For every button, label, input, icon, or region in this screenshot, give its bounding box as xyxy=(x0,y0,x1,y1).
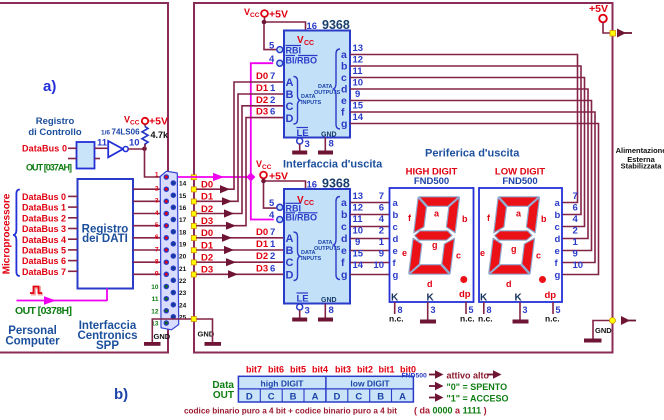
svg-text:f: f xyxy=(341,257,345,269)
svg-text:15: 15 xyxy=(179,193,187,200)
left box (Personal Computer frame) xyxy=(0,3,168,353)
svg-text:23: 23 xyxy=(179,290,187,297)
svg-text:n.c.: n.c. xyxy=(460,314,475,324)
svg-text:FND500: FND500 xyxy=(502,176,537,187)
svg-text:10: 10 xyxy=(129,138,140,149)
wire D2 connector to U1 input C xyxy=(196,106,284,218)
svg-text:OUT: OUT xyxy=(213,390,234,401)
wire junction down to connector pin 1 xyxy=(145,149,165,177)
svg-text:A: A xyxy=(312,392,319,403)
connector pins left column 1-13 xyxy=(164,175,175,325)
+5V external supply terminal top right xyxy=(589,3,632,38)
svg-text:10: 10 xyxy=(353,78,364,89)
svg-text:1: 1 xyxy=(270,83,276,94)
svg-text:c: c xyxy=(393,222,398,233)
magenta control wire from pin1 to BI/RBO pins xyxy=(178,63,274,219)
svg-text:4.7k: 4.7k xyxy=(151,130,170,140)
svg-text:+5V: +5V xyxy=(269,9,288,21)
svg-text:e: e xyxy=(555,246,560,257)
svg-text:1/6: 1/6 xyxy=(101,130,110,137)
Vcc label U2 xyxy=(256,159,288,183)
svg-text:c: c xyxy=(555,222,560,233)
svg-text:bit1: bit1 xyxy=(378,365,394,375)
wire D3 connector to U2 input D xyxy=(196,265,284,279)
svg-text:A: A xyxy=(286,233,294,245)
svg-text:+5V: +5V xyxy=(589,3,608,15)
svg-text:a: a xyxy=(341,49,347,61)
U2 output wires to HIGH digit xyxy=(350,203,390,275)
svg-text:V: V xyxy=(297,35,304,46)
Vcc +5V terminal (control) xyxy=(124,115,168,128)
svg-text:DataBus 3: DataBus 3 xyxy=(22,224,66,234)
wire D2 connector to U2 input C xyxy=(196,253,284,267)
U1 output pin numbers xyxy=(353,43,364,123)
HIGH pin stubs xyxy=(394,302,396,314)
DB25 connector body xyxy=(160,171,179,330)
svg-text:11: 11 xyxy=(353,66,364,77)
svg-text:C: C xyxy=(268,392,275,403)
svg-text:D1: D1 xyxy=(201,192,214,203)
svg-text:D1: D1 xyxy=(256,83,269,94)
LOW pin stubs xyxy=(483,302,485,314)
svg-text:B: B xyxy=(377,392,384,403)
svg-text:9: 9 xyxy=(573,249,578,260)
svg-text:3: 3 xyxy=(305,306,310,317)
svg-text:Microprocessore: Microprocessore xyxy=(2,193,13,274)
svg-text:11: 11 xyxy=(97,138,108,149)
decimal point LOW xyxy=(539,276,546,283)
U2 LE pin 3 bubble and gnd xyxy=(297,304,303,310)
clock pulse symbol xyxy=(30,287,43,295)
register outputs to connector pins 2-9 xyxy=(133,189,165,274)
svg-text:4: 4 xyxy=(269,54,275,65)
svg-text:INPUTS: INPUTS xyxy=(301,100,322,106)
svg-text:CC: CC xyxy=(130,120,140,127)
svg-text:d: d xyxy=(393,234,399,245)
svg-text:15: 15 xyxy=(353,101,364,112)
svg-text:g: g xyxy=(341,269,347,281)
svg-text:D1: D1 xyxy=(201,240,214,251)
svg-text:2: 2 xyxy=(270,95,275,106)
svg-text:high DIGIT: high DIGIT xyxy=(261,379,305,389)
svg-text:FND500: FND500 xyxy=(414,176,449,187)
Registro dei DATI box xyxy=(78,179,134,289)
svg-text:g: g xyxy=(432,240,438,250)
svg-text:C: C xyxy=(355,392,362,403)
svg-text:GND: GND xyxy=(595,326,612,335)
svg-text:a: a xyxy=(555,198,561,209)
svg-text:5: 5 xyxy=(269,198,275,209)
svg-text:8: 8 xyxy=(155,259,159,266)
svg-text:bit7: bit7 xyxy=(246,365,262,375)
svg-text:GND: GND xyxy=(321,297,337,304)
svg-text:10: 10 xyxy=(373,260,384,271)
chip U2 9368 xyxy=(269,189,350,322)
svg-text:GND: GND xyxy=(154,332,171,341)
svg-text:16: 16 xyxy=(179,205,187,212)
yellow junction squares on border xyxy=(191,175,196,322)
svg-text:codice binario puro a 4 bit +: codice binario puro a 4 bit + codice bin… xyxy=(184,407,397,416)
wire Vcc to U2 pin16 and pin5 xyxy=(261,177,350,209)
svg-text:"1" = ACCESO: "1" = ACCESO xyxy=(447,394,509,404)
svg-text:Periferica d'uscita: Periferica d'uscita xyxy=(425,148,520,160)
svg-text:n.c.: n.c. xyxy=(545,314,560,324)
brace microprocessor bus xyxy=(13,190,20,277)
svg-text:c: c xyxy=(536,251,541,261)
output letters a-g xyxy=(341,49,347,130)
svg-text:bit2: bit2 xyxy=(357,365,373,375)
svg-text:14: 14 xyxy=(353,260,364,271)
svg-text:D3: D3 xyxy=(201,265,213,276)
svg-text:FND500: FND500 xyxy=(402,373,428,380)
inverter 1/6 74LS06 xyxy=(97,128,140,158)
svg-text:3: 3 xyxy=(155,198,159,205)
svg-text:74LS06: 74LS06 xyxy=(112,128,141,137)
svg-text:Stabilizzata: Stabilizzata xyxy=(621,162,663,171)
svg-text:DataBus 4: DataBus 4 xyxy=(22,235,66,245)
svg-text:15: 15 xyxy=(353,249,364,260)
ground symbol right of connector xyxy=(198,330,222,346)
svg-text:D0: D0 xyxy=(201,228,213,239)
svg-text:e: e xyxy=(341,245,347,257)
LE pin 3 bubble and gnd xyxy=(297,138,303,144)
svg-text:d: d xyxy=(427,279,433,289)
U2 input letters xyxy=(286,233,294,281)
svg-text:B: B xyxy=(290,392,297,403)
svg-text:e: e xyxy=(341,95,347,107)
wire inverter output to junction xyxy=(128,148,144,150)
svg-text:CC: CC xyxy=(250,12,260,19)
svg-text:D2: D2 xyxy=(256,95,268,106)
svg-text:b: b xyxy=(393,210,399,221)
svg-text:C: C xyxy=(286,101,294,113)
svg-text:b: b xyxy=(541,214,547,224)
svg-text:24: 24 xyxy=(179,302,187,309)
svg-text:dp: dp xyxy=(545,290,557,301)
svg-text:bit4: bit4 xyxy=(312,365,328,375)
svg-text:7: 7 xyxy=(379,191,384,202)
connector ground wire pin25 xyxy=(152,319,212,342)
svg-text:f: f xyxy=(341,107,345,119)
connector pin numbers 10-13 green xyxy=(151,284,159,328)
svg-text:11: 11 xyxy=(152,296,159,303)
svg-text:K: K xyxy=(480,293,488,304)
svg-text:D0: D0 xyxy=(256,227,268,238)
svg-text:D2: D2 xyxy=(256,251,268,262)
svg-text:d: d xyxy=(341,233,347,245)
svg-text:LE: LE xyxy=(297,128,309,139)
svg-text:1: 1 xyxy=(155,172,159,179)
wires DataBus labels to register xyxy=(68,196,78,271)
bit labels xyxy=(246,365,416,375)
GND external terminal bottom right xyxy=(584,316,636,343)
svg-text:g: g xyxy=(341,118,347,130)
svg-text:b: b xyxy=(341,61,347,73)
svg-text:7: 7 xyxy=(270,71,275,82)
svg-text:20: 20 xyxy=(179,254,187,261)
svg-text:b): b) xyxy=(114,386,128,403)
svg-text:2: 2 xyxy=(270,251,275,262)
svg-text:7: 7 xyxy=(270,227,275,238)
svg-text:e: e xyxy=(402,248,407,258)
svg-text:1: 1 xyxy=(379,237,385,248)
DataBus 0-7 labels xyxy=(22,192,66,277)
svg-text:"0" = SPENTO: "0" = SPENTO xyxy=(447,382,508,392)
wire D3 connector to U1 input D xyxy=(196,118,284,230)
display U3 FND500 HIGH DIGIT xyxy=(389,167,475,324)
svg-text:c: c xyxy=(456,251,461,261)
svg-text:DataBus 2: DataBus 2 xyxy=(22,213,66,223)
svg-text:3: 3 xyxy=(523,305,528,315)
svg-text:17: 17 xyxy=(179,217,187,224)
resistor R 4.7k xyxy=(142,124,169,149)
svg-text:3: 3 xyxy=(431,305,436,315)
svg-text:21: 21 xyxy=(179,266,187,273)
svg-text:SPP: SPP xyxy=(96,340,119,352)
svg-text:19: 19 xyxy=(179,242,187,249)
svg-text:D: D xyxy=(286,269,294,281)
wire Vcc to U1 pin16 and pin5 xyxy=(262,17,350,50)
svg-text:4: 4 xyxy=(379,214,385,225)
svg-text:25: 25 xyxy=(179,315,187,322)
svg-text:2: 2 xyxy=(379,226,384,237)
svg-text:b: b xyxy=(555,210,561,221)
svg-text:1: 1 xyxy=(270,239,276,250)
svg-text:OUT [037AH]: OUT [037AH] xyxy=(26,163,72,173)
svg-text:attivo alto: attivo alto xyxy=(447,371,490,381)
svg-text:b: b xyxy=(462,214,468,224)
svg-text:d: d xyxy=(555,234,561,245)
svg-text:14: 14 xyxy=(353,112,364,123)
svg-text:( da 0000 a 1111 ): ( da 0000 a 1111 ) xyxy=(414,406,487,416)
U2 input labels xyxy=(256,227,276,274)
svg-text:bit6: bit6 xyxy=(268,365,284,375)
svg-text:9: 9 xyxy=(355,89,360,100)
svg-text:d: d xyxy=(506,279,512,289)
svg-text:BI/RBO: BI/RBO xyxy=(286,55,318,65)
svg-text:7: 7 xyxy=(573,191,578,202)
svg-text:13: 13 xyxy=(353,191,364,202)
7seg digit HIGH xyxy=(409,197,460,274)
svg-text:5: 5 xyxy=(155,222,159,229)
svg-text:8: 8 xyxy=(329,139,334,150)
Alimentazione Esterna Stabilizzata label xyxy=(616,146,664,171)
svg-text:Registro: Registro xyxy=(36,116,75,127)
svg-text:3: 3 xyxy=(305,139,310,150)
svg-text:e: e xyxy=(480,248,485,258)
svg-text:D0: D0 xyxy=(201,180,213,191)
svg-text:bit5: bit5 xyxy=(290,365,306,375)
svg-text:B: B xyxy=(286,89,294,101)
right box (interface frame) xyxy=(194,3,613,353)
svg-text:5: 5 xyxy=(269,41,275,52)
input letters xyxy=(286,77,294,125)
svg-text:DataBus 7: DataBus 7 xyxy=(22,267,66,277)
svg-text:12: 12 xyxy=(353,55,364,66)
svg-text:K: K xyxy=(515,293,523,304)
wire D1 connector to U1 input B xyxy=(196,94,284,205)
wire latch stub xyxy=(95,158,101,160)
svg-text:D2: D2 xyxy=(201,253,213,264)
svg-text:13: 13 xyxy=(353,43,364,54)
svg-text:D0: D0 xyxy=(256,71,268,82)
svg-text:dei DATI: dei DATI xyxy=(82,233,128,245)
svg-text:4: 4 xyxy=(155,210,159,217)
svg-text:Alimentazione: Alimentazione xyxy=(616,146,664,155)
svg-text:18: 18 xyxy=(179,229,187,236)
svg-text:di Controllo: di Controllo xyxy=(28,127,81,138)
svg-text:a: a xyxy=(393,198,399,209)
svg-text:2: 2 xyxy=(155,186,159,193)
svg-text:D3: D3 xyxy=(256,107,268,118)
svg-text:4: 4 xyxy=(573,214,579,225)
svg-text:6: 6 xyxy=(155,234,159,241)
connector pin numbers 1-9 red xyxy=(155,172,159,278)
svg-text:D: D xyxy=(286,113,294,125)
7seg digit LOW xyxy=(489,197,540,274)
svg-text:K: K xyxy=(427,293,435,304)
svg-text:D3: D3 xyxy=(256,263,268,274)
svg-text:LE: LE xyxy=(297,294,309,305)
svg-text:OUT [0378H]: OUT [0378H] xyxy=(15,305,72,317)
svg-text:11: 11 xyxy=(353,214,364,225)
connector pin numbers 14-25 black xyxy=(179,181,187,322)
junction dot xyxy=(142,147,147,152)
svg-text:n.c.: n.c. xyxy=(478,314,493,324)
svg-text:DataBus 5: DataBus 5 xyxy=(22,246,66,256)
svg-text:9: 9 xyxy=(379,249,384,260)
svg-text:CC: CC xyxy=(304,40,314,47)
svg-text:c: c xyxy=(341,72,347,84)
svg-text:Computer: Computer xyxy=(5,336,60,348)
svg-text:b: b xyxy=(341,209,347,221)
svg-text:6: 6 xyxy=(573,203,578,214)
svg-text:14: 14 xyxy=(179,181,187,188)
svg-text:c: c xyxy=(341,221,347,233)
svg-text:CC: CC xyxy=(304,200,314,207)
connector pins right column 14-25 xyxy=(171,181,175,319)
U2 output pin numbers xyxy=(353,191,364,271)
svg-text:g: g xyxy=(555,270,561,281)
svg-text:12: 12 xyxy=(151,308,159,315)
wire D1 connector to U2 input B xyxy=(196,240,284,254)
svg-text:10: 10 xyxy=(151,284,159,291)
svg-text:Interfaccia d'uscita: Interfaccia d'uscita xyxy=(283,159,383,171)
svg-text:g: g xyxy=(393,270,399,281)
svg-text:e: e xyxy=(393,246,398,257)
svg-text:+5V: +5V xyxy=(149,116,168,128)
U1 output wires a-g to right side and down to LOW digit xyxy=(350,55,599,275)
U2 output letters a-g xyxy=(341,197,347,281)
svg-text:12: 12 xyxy=(353,203,364,214)
svg-text:dp: dp xyxy=(459,289,471,300)
wire D0 connector to U2 input A xyxy=(196,228,284,242)
svg-text:10: 10 xyxy=(353,226,364,237)
control latch cell xyxy=(77,142,95,169)
HIGH display pin numbers xyxy=(373,191,384,271)
svg-text:1: 1 xyxy=(573,237,579,248)
magenta strobe wire OUT [0378H] xyxy=(17,289,108,305)
Vcc terminal U1 xyxy=(244,7,288,21)
svg-text:low DIGIT: low DIGIT xyxy=(350,379,390,389)
svg-text:2: 2 xyxy=(573,226,578,237)
svg-text:INPUTS: INPUTS xyxy=(301,256,322,262)
svg-text:8: 8 xyxy=(329,305,334,316)
svg-text:GND: GND xyxy=(321,132,337,139)
svg-text:6: 6 xyxy=(270,107,275,118)
data table xyxy=(238,376,413,402)
svg-text:DataBus 1: DataBus 1 xyxy=(22,203,66,213)
svg-text:RBI: RBI xyxy=(286,46,302,56)
svg-text:4: 4 xyxy=(269,210,275,221)
svg-text:a: a xyxy=(341,197,347,209)
svg-text:d: d xyxy=(341,84,347,96)
svg-text:9: 9 xyxy=(355,237,360,248)
svg-text:g: g xyxy=(511,244,517,254)
svg-text:D2: D2 xyxy=(201,204,213,215)
LOW display pin numbers xyxy=(573,191,584,271)
svg-text:9: 9 xyxy=(155,271,159,278)
svg-text:7: 7 xyxy=(155,246,159,253)
svg-text:a): a) xyxy=(43,78,56,95)
svg-text:10: 10 xyxy=(573,260,584,271)
svg-text:D: D xyxy=(333,392,340,403)
U1 input labels xyxy=(256,71,276,118)
FND500 legend xyxy=(402,370,509,403)
svg-text:DataBus 0: DataBus 0 xyxy=(22,192,66,202)
display U4 FND500 LOW DIGIT xyxy=(478,167,562,324)
svg-text:bit3: bit3 xyxy=(335,365,351,375)
wire DataBus0 to latch xyxy=(68,147,77,149)
svg-text:K: K xyxy=(391,293,399,304)
svg-text:6: 6 xyxy=(379,203,384,214)
wire D0 connector to U1 input A xyxy=(196,82,284,193)
svg-text:DataBus 6: DataBus 6 xyxy=(22,256,66,266)
svg-text:B: B xyxy=(286,245,294,257)
ground symbol left of connector xyxy=(144,332,171,346)
svg-text:A: A xyxy=(399,392,406,403)
svg-text:D1: D1 xyxy=(256,239,269,250)
svg-text:6: 6 xyxy=(270,263,275,274)
svg-text:n.c.: n.c. xyxy=(389,314,404,324)
svg-text:A: A xyxy=(286,77,294,89)
chip U1 9368 xyxy=(269,31,350,155)
svg-text:DataBus 0: DataBus 0 xyxy=(22,144,67,154)
wire latch to inverter xyxy=(95,147,109,149)
svg-text:C: C xyxy=(286,257,294,269)
svg-text:22: 22 xyxy=(179,278,187,285)
svg-text:D: D xyxy=(246,392,253,403)
decimal point HIGH xyxy=(460,276,467,283)
svg-text:BI/RBO: BI/RBO xyxy=(286,213,318,223)
svg-text:D3: D3 xyxy=(201,216,213,227)
